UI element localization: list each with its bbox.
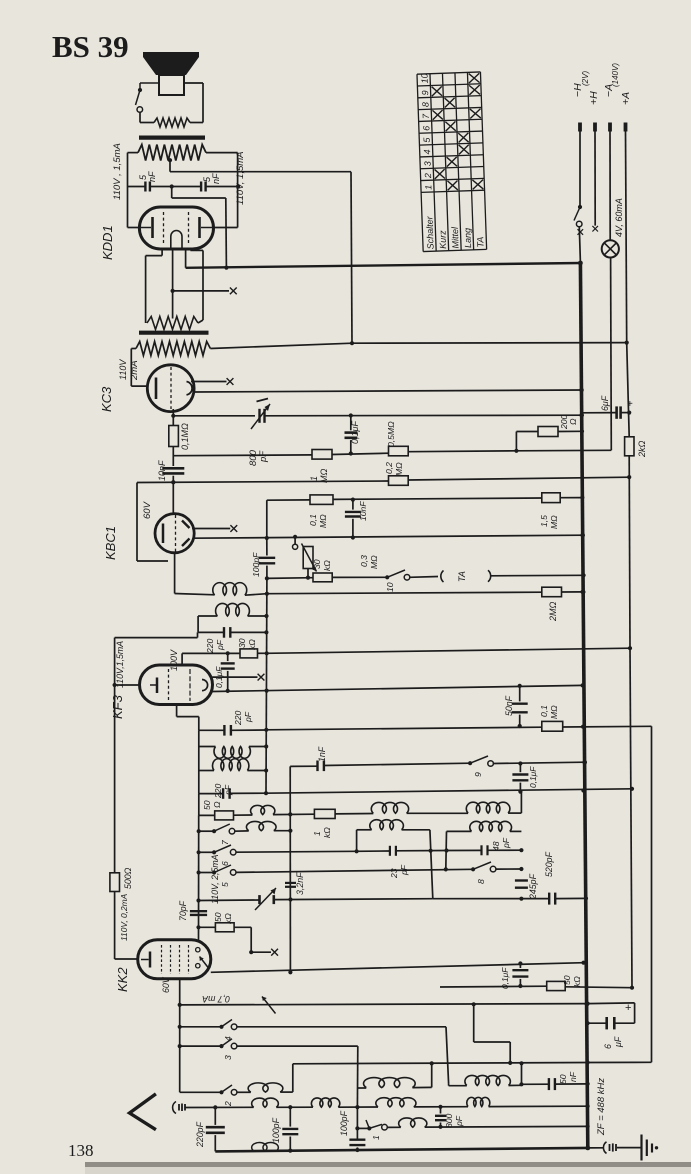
svg-text:100pF: 100pF	[251, 552, 261, 577]
wire TA line b	[332, 576, 387, 578]
svg-text:(140V): (140V)	[611, 63, 620, 87]
wire TA line d	[491, 574, 584, 577]
wire osc line corner	[198, 794, 200, 816]
svg-text:0,2: 0,2	[384, 462, 394, 474]
wire screen supply line	[267, 648, 630, 653]
node sw8 corner	[519, 867, 523, 871]
svg-text:9: 9	[473, 772, 483, 777]
svg-text:220: 220	[213, 783, 223, 799]
node R5 rail	[580, 429, 584, 433]
capacitor C28 100pF	[349, 1138, 365, 1140]
capacitor C3 800pF variable	[258, 409, 260, 423]
capacitor C6 10nF	[345, 511, 361, 513]
switch S3	[219, 1044, 223, 1048]
svg-text:kΩ: kΩ	[322, 560, 332, 571]
node coil line junction	[265, 592, 269, 596]
svg-text:220pF: 220pF	[195, 1121, 205, 1148]
terminal -H stub	[578, 123, 582, 132]
wire +A lower	[628, 456, 631, 648]
node rail L1004	[585, 1002, 590, 1007]
capacitor C1 5nF	[144, 182, 146, 192]
svg-text:10nF: 10nF	[157, 460, 167, 481]
svg-text:8: 8	[476, 879, 486, 884]
node C11 right	[264, 791, 268, 795]
node sw5 feed	[197, 870, 201, 874]
node C9 bottom	[226, 689, 230, 693]
wire KBC1 grid cap lead	[192, 528, 230, 530]
tube KK2 pin circle 2	[196, 964, 200, 968]
node x -H	[578, 229, 584, 235]
svg-text:50: 50	[558, 1074, 568, 1084]
wire 1nF line b	[324, 763, 470, 765]
wire 1nF branch vertical	[289, 766, 291, 972]
transformer Tr2 primary	[136, 342, 210, 356]
svg-text:pF: pF	[223, 784, 233, 796]
tube KC3 envelope	[147, 365, 194, 412]
svg-text:TA: TA	[475, 237, 485, 248]
svg-text:10: 10	[385, 582, 395, 592]
switch S9	[468, 761, 472, 765]
resistor R6 0,2M	[389, 476, 409, 486]
svg-text:50: 50	[562, 975, 572, 985]
node C12 bottom	[518, 724, 522, 728]
coil L12 band4	[364, 1078, 416, 1088]
svg-text:(2V): (2V)	[581, 71, 590, 86]
wire KC3 grid cap lead	[191, 381, 227, 383]
tube KBC1 cathode bar	[162, 524, 165, 544]
node osc 1nF tap	[288, 812, 292, 816]
wire switch6 line a	[199, 851, 215, 853]
node 520pF rail	[584, 896, 588, 900]
svg-text:50nF: 50nF	[504, 695, 514, 716]
svg-text:110V, 1,5mA: 110V, 1,5mA	[235, 151, 246, 205]
node 50k2 x520	[518, 984, 522, 988]
node 48pF right	[519, 848, 523, 852]
wire long vertical detector	[265, 578, 268, 793]
wire 1nF line a	[290, 765, 317, 767]
svg-text:2: 2	[423, 173, 433, 179]
wire KC3 cathode line	[194, 390, 583, 392]
svg-text:4V, 60mA: 4V, 60mA	[614, 198, 624, 237]
svg-text:MΩ: MΩ	[549, 515, 559, 529]
wire diode line L480	[137, 481, 389, 483]
wire KK2 bottom lead	[179, 979, 181, 1093]
transformer Tr2 core	[139, 331, 209, 335]
tube KF3 grid dashed 1	[168, 669, 170, 701]
node link rail	[586, 1060, 590, 1064]
wire Tr2 right to +A	[210, 343, 352, 348]
node L480 v4	[627, 475, 631, 479]
svg-text:10: 10	[419, 73, 429, 83]
svg-text:110V, 2,5mA: 110V, 2,5mA	[210, 854, 220, 904]
wire primary left to anode	[128, 152, 139, 154]
wire 6uF2 top link	[588, 1002, 635, 1005]
wire KK2 cathode line	[180, 1004, 588, 1005]
node +A 6uF tap	[627, 411, 631, 415]
node S9 line rail	[583, 760, 587, 764]
wire antenna line c	[338, 1106, 378, 1108]
node 23pF line x430	[429, 849, 433, 853]
svg-text:2mA: 2mA	[129, 360, 140, 381]
wire 50k line 2 b	[565, 986, 632, 989]
antenna symbol	[130, 1094, 156, 1130]
node C7 top	[265, 536, 269, 540]
switch S6	[212, 850, 216, 854]
svg-text:6μF: 6μF	[600, 395, 610, 411]
node C5 top	[349, 413, 353, 417]
resistor R9 30k	[313, 573, 332, 582]
svg-text:Mittel: Mittel	[450, 226, 461, 249]
node KF3 cathode	[113, 683, 117, 687]
wire switch1 line	[357, 1127, 369, 1129]
wire KK2 anode line	[211, 963, 584, 973]
wire main rail	[580, 263, 587, 1148]
wire switch3 line b	[237, 1045, 358, 1047]
resistor R2 0,1M	[169, 426, 179, 447]
wire trimmer line c	[433, 898, 549, 900]
svg-text:800: 800	[444, 1113, 454, 1128]
svg-text:kΩ: kΩ	[572, 976, 582, 987]
svg-text:500Ω: 500Ω	[123, 867, 133, 889]
svg-text:KDD1: KDD1	[100, 225, 115, 260]
node anode x520	[518, 961, 522, 965]
node pot tap L536	[293, 535, 297, 539]
svg-text:+: +	[625, 1002, 631, 1014]
svg-text:110V , 1,5mA: 110V , 1,5mA	[112, 143, 123, 200]
wire TA line c	[410, 576, 438, 579]
transformer Tr1 primary winding	[138, 145, 206, 161]
node bottom rail	[585, 1146, 590, 1151]
svg-text:70pF: 70pF	[178, 900, 188, 921]
resistor R4 0,5M	[389, 446, 409, 456]
node link x510	[508, 1061, 512, 1065]
svg-text:50: 50	[213, 912, 223, 922]
svg-text:BS 39: BS 39	[52, 29, 129, 64]
tube KC3 anode bar	[155, 378, 158, 400]
capacitor C16 48pF	[480, 845, 482, 855]
resistor R7 0,1M	[310, 495, 333, 505]
wire coil L13 right	[509, 1084, 522, 1086]
wire osc line d	[335, 813, 373, 815]
svg-text:0,1: 0,1	[539, 705, 549, 717]
svg-text:10nF: 10nF	[358, 501, 368, 521]
wire 50k line	[199, 926, 216, 928]
wire KBC1 cathode left	[136, 483, 138, 562]
svg-text:50: 50	[202, 800, 212, 810]
capacitor C20 520pF	[548, 893, 550, 905]
wire switch2 line b	[237, 1091, 251, 1093]
wire anode supply line	[352, 342, 627, 345]
svg-text:0,3: 0,3	[359, 555, 369, 567]
node primary center tap	[168, 158, 172, 162]
tube KF3 anode hook	[202, 680, 208, 691]
antenna connector	[173, 1102, 176, 1114]
svg-text:110V, 0,2mA: 110V, 0,2mA	[119, 893, 129, 941]
wire earth link	[588, 1147, 603, 1149]
wire -A lower	[610, 258, 613, 451]
wire AVC line L453 a	[173, 454, 312, 457]
switch S10	[385, 575, 389, 579]
resistor R3 1M	[312, 450, 332, 460]
svg-text:pF: pF	[243, 711, 253, 723]
node 48pF line left	[444, 848, 448, 852]
svg-text:2MΩ: 2MΩ	[548, 601, 558, 622]
capacitor C13 1nF	[316, 761, 318, 772]
svg-text:48: 48	[491, 841, 501, 851]
wire speaker bottom	[139, 112, 141, 122]
svg-text:Kurz: Kurz	[437, 230, 448, 249]
node rail L764	[582, 760, 587, 765]
node C6 bottom	[351, 535, 355, 539]
wire antenna line a	[185, 1106, 254, 1108]
node x +H	[592, 226, 598, 232]
capacitor C15 23pF	[389, 846, 391, 856]
lamp La1 4V 60mA	[602, 240, 619, 257]
node C5 bottom	[349, 451, 353, 455]
wire switch4 line a	[180, 1026, 222, 1028]
svg-text:KF3: KF3	[110, 694, 125, 719]
wire Tr2 left to KC3 anode	[131, 348, 136, 350]
node sw1 line rail	[586, 1124, 590, 1128]
wire KF3 anode line	[213, 685, 583, 691]
resistor R13 50	[215, 811, 234, 820]
capacitor C29 6uF	[615, 406, 618, 418]
svg-text:520pF: 520pF	[544, 851, 554, 877]
wire L4 sides	[198, 747, 200, 771]
svg-text:0,1μF: 0,1μF	[528, 766, 538, 788]
switch S8	[471, 867, 475, 871]
wire KDD1 g1 lead	[161, 249, 163, 256]
capacitor C19 trimmer	[258, 895, 261, 904]
svg-text:pF: pF	[454, 1115, 464, 1127]
wire switch5 line a	[199, 872, 215, 874]
capacitor C8 220pF	[223, 627, 225, 638]
capacitor C2 5nF	[200, 182, 202, 192]
wire +A line	[626, 132, 627, 343]
svg-text:1: 1	[312, 831, 322, 836]
wire switch2 line a	[180, 1091, 222, 1093]
tube KK2 cathode bar	[149, 952, 152, 968]
switch S5	[212, 870, 216, 874]
node ant 220pF tap	[213, 1105, 217, 1109]
svg-text:KC3: KC3	[99, 386, 114, 412]
node L791 v4	[630, 787, 634, 791]
wire osc line f	[508, 812, 521, 814]
svg-text:pF: pF	[215, 639, 225, 651]
node rail L536	[580, 533, 585, 538]
wire to chassis mark KK2	[251, 951, 271, 953]
svg-text:KBC1: KBC1	[103, 526, 118, 560]
coil L1 IF1 primary	[213, 583, 247, 596]
svg-text:0,1MΩ: 0,1MΩ	[180, 423, 190, 450]
tube KDD1 grid 2 dashed	[188, 212, 190, 244]
node ant rail	[586, 1104, 590, 1108]
wire HT bus	[186, 263, 581, 268]
svg-text:pF: pF	[258, 450, 269, 463]
node x grid cap KBC1	[230, 525, 237, 532]
tube KDD1 grid 1 dashed	[163, 212, 165, 244]
wire osc line b	[234, 814, 253, 816]
wire link row right	[588, 1061, 652, 1063]
tube KF3 cathode bar	[156, 678, 159, 694]
wire switch7 line a	[199, 830, 214, 832]
terminal -A stub	[608, 123, 612, 132]
svg-text:1: 1	[371, 1135, 381, 1140]
resistor R8 1,5M	[542, 493, 560, 503]
capacitor C7 100pF	[259, 557, 276, 559]
svg-text:0,5MΩ: 0,5MΩ	[386, 421, 396, 447]
coil L11 ant	[248, 1083, 283, 1092]
wire staircase	[473, 1004, 475, 1042]
speaker LS1 magnet	[159, 75, 184, 95]
node L3 right	[264, 744, 268, 748]
wire L3 sides	[198, 730, 200, 746]
coil L7 osc grid	[466, 802, 510, 813]
svg-text:+A: +A	[620, 92, 632, 105]
wire sw3 vertical lower	[356, 1107, 358, 1140]
wire -A line	[609, 132, 611, 241]
wire coil row right a	[448, 1083, 450, 1085]
wire speaker right	[190, 122, 203, 124]
capacitor C24 50nF	[548, 1078, 550, 1090]
node anode osc tap	[288, 970, 292, 974]
node ant 100pF tap 1	[288, 1105, 292, 1109]
svg-text:110V: 110V	[118, 359, 128, 380]
potentiometer P1 0,3M	[294, 537, 296, 544]
node 50nF line left	[519, 1082, 523, 1086]
svg-text:5: 5	[220, 882, 230, 887]
coil L19 bottom	[252, 1143, 279, 1151]
capacitor C14 0,1uF	[512, 773, 528, 775]
resistor R18 2k	[625, 437, 634, 456]
ground symbol	[640, 1135, 642, 1161]
wire center tap feed	[169, 160, 171, 172]
switch S-LS	[138, 88, 142, 92]
node x grid cap KC3	[227, 378, 234, 385]
wire L8 right	[402, 829, 430, 831]
node ant junction x357	[355, 1105, 359, 1109]
coil L14 ant series 1	[252, 1098, 279, 1107]
wire screen line	[258, 652, 267, 654]
wire coil line mid	[245, 594, 267, 596]
wire to ground symbol	[617, 1147, 641, 1149]
node rail L592	[581, 590, 586, 595]
wire cathode into R1	[172, 317, 174, 319]
wire KF3 screen lead	[181, 653, 183, 665]
node sw8 line x446	[444, 867, 448, 871]
tube KBC1 diode plate 1	[182, 521, 190, 529]
svg-text:kΩ: kΩ	[247, 639, 257, 650]
wire switch6 line b	[236, 850, 357, 853]
wire 1nF line c	[493, 762, 584, 763]
wire screen line L726 b	[563, 725, 652, 728]
svg-text:60V: 60V	[161, 976, 171, 993]
wire AVC line L453 c	[408, 450, 516, 453]
wire antenna line d	[414, 1106, 468, 1108]
speaker LS1 horn	[143, 52, 199, 75]
svg-text:1,5: 1,5	[539, 515, 549, 527]
capacitor C9 0,1uF	[221, 662, 235, 664]
tube KDD1 anode 1	[151, 217, 154, 238]
node sw6 feed	[197, 850, 201, 854]
coil L8 band1	[370, 820, 404, 830]
capacitor C10 220pF	[223, 725, 225, 736]
tube KK2 grid dashed 1	[161, 945, 163, 974]
wire KBC1 bottom lead	[174, 553, 176, 594]
node C6 top	[351, 498, 355, 502]
svg-text:220: 220	[205, 638, 215, 654]
svg-text:8: 8	[420, 102, 430, 107]
svg-text:100V: 100V	[169, 649, 179, 671]
wire switch5-8 line	[236, 869, 473, 872]
table switch grid	[417, 72, 487, 252]
wire trimmer line a	[199, 899, 260, 902]
svg-text:TA: TA	[457, 571, 467, 582]
wire KC3 grid down	[172, 409, 174, 416]
resistor R-LS field coil	[154, 118, 190, 127]
coil L10 band3	[246, 821, 276, 830]
svg-text:Schalter: Schalter	[424, 215, 435, 249]
terminal +A stub	[624, 123, 628, 132]
node C12 top	[518, 684, 522, 688]
node L791 x520	[518, 790, 522, 794]
switch S4	[219, 1025, 223, 1029]
node 800pF bottom	[438, 1125, 442, 1129]
wire KK2 left vertical	[114, 892, 116, 960]
node S9 line x520	[518, 761, 522, 765]
node rail L415	[579, 413, 584, 418]
node L4 right	[264, 768, 268, 772]
tube KK2 grid dashed 2	[170, 945, 172, 974]
switch S7	[212, 829, 216, 833]
capacitor C4 10nF	[162, 467, 184, 470]
coil L2 IF1 secondary	[216, 603, 250, 616]
node C9 top	[226, 651, 230, 655]
wire coil line left	[175, 594, 215, 595]
node anode rail	[581, 961, 585, 965]
tube KF3 grid dashed 2	[189, 669, 191, 701]
tube KK2 grid dashed 4	[188, 945, 190, 974]
svg-text:2: 2	[223, 1101, 233, 1107]
tube KK2 grid dashed 3	[179, 945, 181, 974]
node cathode line left	[178, 1003, 182, 1007]
wire screen feed L791	[266, 789, 632, 793]
tube KC3 grid dashed	[170, 367, 172, 409]
wire KBC1 grid top	[172, 482, 174, 513]
node x chassis KDD1	[230, 288, 237, 295]
svg-text:MΩ: MΩ	[394, 462, 404, 476]
wire switch2 line c	[280, 1091, 293, 1093]
wire KF3 grid cap lead	[213, 676, 258, 678]
wire L9 right	[510, 830, 522, 832]
node link x431	[430, 1061, 434, 1065]
tube KK2 envelope	[138, 940, 211, 979]
node sw1 feed	[355, 1126, 359, 1130]
node trimmer x290	[288, 897, 292, 901]
wire antenna line b	[276, 1106, 313, 1108]
resistor R12 0,1M	[542, 721, 563, 731]
terminal +H stub	[593, 123, 597, 132]
wire osc line c	[273, 813, 314, 815]
wire L8 left	[357, 829, 372, 831]
coil L4 IF2 secondary	[212, 759, 248, 771]
svg-text:ZF = 488 kHz: ZF = 488 kHz	[596, 1078, 607, 1136]
svg-text:0,1: 0,1	[308, 514, 318, 526]
svg-text:4: 4	[422, 149, 432, 154]
node sw4 feed	[178, 1025, 182, 1029]
capacitor C27 800pF	[435, 1115, 446, 1117]
coil L3 IF2 primary	[214, 747, 250, 759]
